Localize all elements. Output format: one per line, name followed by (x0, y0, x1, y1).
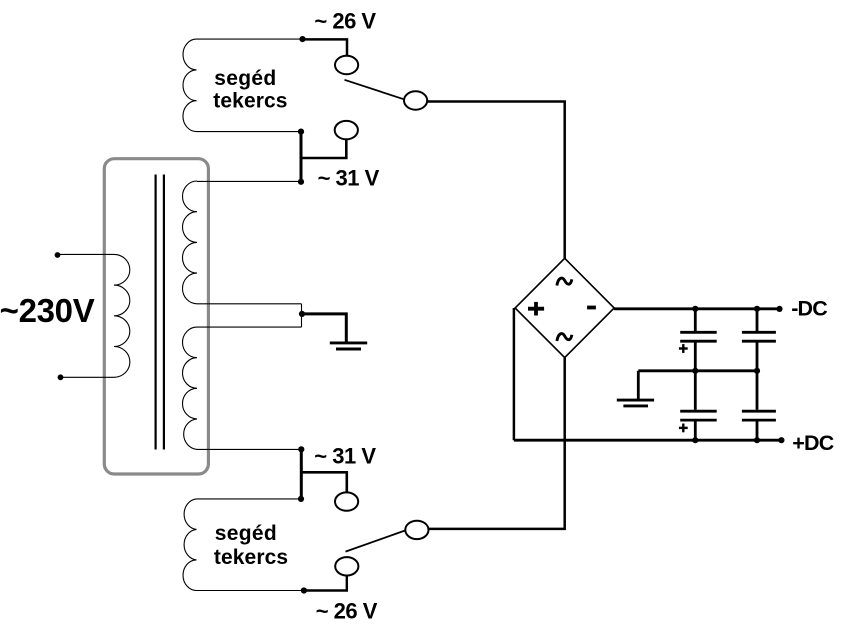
transformer core (156, 175, 164, 450)
svg-text:segéd: segéd (215, 522, 277, 545)
label +DC (792, 431, 833, 455)
capacitor C4 (742, 371, 776, 440)
auxiliary winding lower (seged tekercs) (183, 499, 196, 591)
node 31V upper (298, 179, 304, 185)
node aux lower top (298, 496, 304, 502)
switch contact circle S1b (31V) (335, 121, 358, 139)
wire 26V node to switch contact S2a (304, 576, 347, 591)
node +DC rail C3 (692, 437, 698, 443)
secondary winding upper (183, 181, 198, 304)
wire aux bottom to 31V node vertical (300, 132, 303, 182)
terminal dot primary bottom (58, 374, 64, 380)
wire +DC rail (514, 439, 782, 442)
wire secondary upper top lead to 31V node (197, 180, 301, 182)
label tekercs lower (214, 546, 288, 569)
capacitor C1 (680, 309, 717, 371)
wire center tap to ground (302, 314, 346, 343)
svg-text:~ 26 V: ~ 26 V (316, 598, 378, 623)
label seged upper (214, 67, 276, 90)
wire center tap vertical (301, 304, 303, 327)
svg-text:~230V: ~230V (0, 292, 95, 329)
node -DC rail C2 (754, 306, 760, 312)
node aux upper 26V (299, 36, 305, 42)
wire secondary lower top lead (center tap) (197, 326, 302, 328)
switch common circle S2 (405, 521, 428, 539)
label ~ 31 V top (318, 166, 380, 191)
wire -DC rail (614, 307, 780, 310)
terminal -DC (776, 306, 782, 312)
svg-text:+DC: +DC (792, 431, 833, 455)
node aux lower 26V (301, 587, 307, 593)
bridge symbol ~ bottom (557, 334, 572, 341)
bridge symbol ~ top (557, 278, 572, 285)
wire aux upper bottom lead (197, 131, 302, 133)
secondary winding lower (183, 327, 198, 449)
wire 26V node to switch contact S1a (302, 39, 347, 56)
ground center tap (330, 343, 367, 349)
wire 31V lower vertical (300, 449, 303, 499)
wire switch contact S1b to 31V line (300, 139, 346, 158)
switch contact circle S2a (26V) (335, 557, 358, 575)
svg-text:~ 31 V: ~ 31 V (314, 444, 376, 469)
wire secondary upper bottom lead (center tap) (197, 303, 302, 305)
node aux upper bottom (298, 129, 304, 135)
wire mid rail to ground (637, 371, 640, 400)
wire primary bottom lead (61, 376, 115, 378)
switch contact circle S1a (26V) (335, 56, 358, 74)
wire mid rail (638, 369, 757, 372)
node 31V lower (298, 446, 304, 452)
terminal +DC (778, 437, 784, 443)
capacitor C2 (742, 309, 776, 371)
wire aux lower bottom lead (197, 590, 304, 592)
wire switch S2 to bridge AC bottom (429, 358, 565, 529)
bridge rectifier B1 diamond (515, 258, 614, 357)
switch contact circle S2b (31V) (335, 492, 358, 510)
wire bridge plus to +DC rail (513, 308, 516, 440)
wire aux upper top lead (197, 38, 303, 40)
wire to switch contact S2b (301, 472, 347, 492)
switch blade S2 (346, 530, 406, 551)
svg-text:tekercs: tekercs (214, 546, 288, 569)
node mid rail C1 (692, 368, 698, 374)
wire switch S1 to bridge AC top (427, 102, 565, 260)
bridge symbol minus (587, 306, 596, 310)
terminal dot primary top (55, 252, 61, 258)
capacitor C3 (680, 371, 717, 440)
label ~230V (0, 292, 95, 329)
label ~ 26 V bottom (316, 598, 378, 623)
auxiliary winding upper (seged tekercs) (183, 39, 197, 132)
label tekercs upper (213, 89, 287, 112)
label ~ 26 V top (314, 8, 376, 33)
svg-text:tekercs: tekercs (213, 89, 287, 112)
C3 plus mark (679, 424, 688, 433)
wire primary top lead (59, 253, 115, 255)
label seged lower (215, 522, 277, 545)
ground output (617, 400, 654, 406)
C1 plus mark (679, 344, 688, 353)
transformer T1 body (104, 159, 208, 474)
switch common circle S1 (404, 91, 427, 109)
node center tap (299, 311, 305, 317)
node +DC rail C4 (754, 437, 760, 443)
svg-text:~ 31 V: ~ 31 V (318, 166, 380, 191)
svg-text:-DC: -DC (791, 296, 827, 320)
label -DC (791, 296, 827, 320)
node mid rail C2 (754, 368, 760, 374)
node -DC rail C1 (692, 306, 698, 312)
label ~ 31 V bottom (314, 444, 376, 469)
primary winding (114, 254, 130, 377)
wire aux lower top lead (197, 498, 302, 500)
switch blade S1 (345, 80, 405, 100)
svg-text:~ 26 V: ~ 26 V (314, 8, 376, 33)
svg-text:segéd: segéd (214, 67, 276, 90)
bridge symbol plus (528, 302, 544, 316)
wire secondary lower bottom lead to 31V node (197, 448, 301, 450)
